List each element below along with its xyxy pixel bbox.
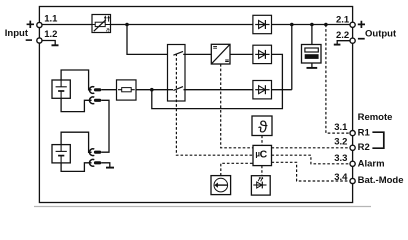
- wire: input + rail (y=24.5): [39, 24, 350, 26]
- svg-text:C: C: [260, 148, 268, 160]
- svg-text:2.2: 2.2: [336, 30, 349, 41]
- wire: battery B1 bottom loop to plug: [61, 98, 92, 111]
- switch box S1: [168, 45, 254, 156]
- svg-text:R2: R2: [358, 142, 370, 153]
- ground at terminal 2.2: [337, 41, 350, 44]
- ground at terminal 1.2: [42, 41, 55, 45]
- thermal sensor box: [252, 116, 272, 137]
- wire: battery B2 bottom loop to plug: [61, 163, 92, 172]
- node: junction dot cap branch: [310, 23, 314, 27]
- adjuster (potentiometer) box: [211, 176, 231, 195]
- node: junction dot dashed branch to R1: [324, 23, 328, 27]
- wire: battery B2 top loop to plug: [61, 132, 92, 152]
- wire: DC/DC to middle diode: [230, 53, 253, 55]
- wire: branch from + rail down to switch (x=127): [127, 25, 173, 55]
- wire: P2 to P3 series link: [101, 100, 109, 152]
- wire: bottom diode up to + rail: [291, 25, 293, 90]
- wire: switch to DC/DC: [183, 53, 211, 55]
- terminal 2.2: [350, 38, 355, 43]
- capacitor C1 (energy storage): [302, 45, 322, 68]
- wire (dashed): uC to terminal 3.4: [272, 162, 350, 181]
- svg-text:ϑ: ϑ: [106, 27, 110, 34]
- svg-text:3.3: 3.3: [334, 153, 347, 164]
- wire: battery rail (y=89.7): [101, 89, 173, 91]
- wire: down to capacitor: [311, 25, 313, 45]
- diode D2 (middle): [253, 45, 272, 63]
- svg-text:Alarm: Alarm: [358, 158, 385, 169]
- wire: middle diode return loop to battery rail: [152, 54, 283, 108]
- linkage dashes inside box down to uC: [176, 54, 253, 156]
- svg-text:1.2: 1.2: [44, 29, 57, 40]
- node: junction dot: [290, 23, 294, 27]
- enclosure border: [39, 7, 352, 203]
- svg-text:ϑ: ϑ: [258, 118, 268, 137]
- label - (output): [358, 38, 365, 40]
- wire (dashed): uC to terminal 3.2: [272, 147, 350, 149]
- plug-socket P1 (B1 + to fuse): [90, 87, 102, 94]
- terminal 3.4: [350, 178, 355, 183]
- node: junction dot at branch x=127: [125, 23, 129, 27]
- plug-socket P4 (B2 -): [90, 159, 102, 166]
- LED indicator box: [251, 176, 270, 195]
- label - (input): [26, 39, 32, 41]
- svg-text:Bat.-Mode: Bat.-Mode: [358, 175, 404, 186]
- svg-text:Output: Output: [365, 29, 397, 40]
- gray bottom rule: [34, 206, 371, 208]
- terminal 1.2: [37, 38, 42, 43]
- label + (input): [27, 21, 34, 28]
- terminal 1.1: [37, 22, 42, 27]
- wire (dashed): + rail to terminal 3.1 / R1: [326, 25, 350, 134]
- node: junction dot battery rail: [150, 88, 154, 92]
- terminal 2.1: [350, 22, 355, 27]
- diode D1 (top): [253, 15, 272, 33]
- svg-text:3.4: 3.4: [334, 172, 348, 183]
- microcontroller U1: [253, 145, 272, 165]
- surge protector F1: [92, 15, 111, 35]
- svg-text:3.2: 3.2: [334, 136, 347, 147]
- terminal 3.2: [350, 145, 355, 150]
- battery B1: [52, 80, 70, 98]
- bracket joining R1/R2: [372, 132, 383, 148]
- linkage to uC: [221, 64, 253, 148]
- wire: P4 to ground: [101, 163, 110, 167]
- wire (dashed): uC down to LED: [261, 166, 263, 176]
- DC/DC converter U2: [211, 44, 253, 148]
- svg-text:1.1: 1.1: [44, 14, 58, 25]
- svg-text:Remote: Remote: [358, 112, 393, 123]
- ground below capacitor: [307, 67, 318, 69]
- terminal 3.3: [350, 161, 355, 166]
- fuse F2: [117, 80, 137, 100]
- diode D3 (bottom): [253, 81, 272, 99]
- wire: battery B1 top loop to plug: [61, 70, 92, 90]
- svg-text:R1: R1: [358, 127, 371, 138]
- svg-text:3.1: 3.1: [334, 122, 348, 133]
- ground (battery -): [106, 167, 114, 169]
- label + (output): [358, 21, 365, 28]
- svg-text:Input: Input: [5, 28, 29, 39]
- plug-socket P2 (B1 - to B2 +): [90, 97, 102, 104]
- wire (dashed): theta to uC: [261, 136, 263, 146]
- battery B2: [52, 145, 70, 163]
- top contact: [173, 51, 183, 55]
- svg-text:2.1: 2.1: [336, 15, 350, 26]
- terminal 3.1: [350, 131, 355, 136]
- bottom contact: [173, 87, 183, 91]
- wire (dashed): adjuster to uC: [221, 163, 253, 175]
- wire (dashed): uC to terminal 3.3: [272, 155, 350, 164]
- plug-socket P3 (B2 +): [90, 149, 102, 156]
